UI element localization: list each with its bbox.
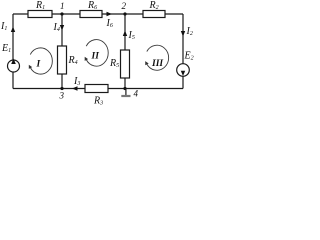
svg-text:4: 4: [134, 89, 139, 99]
svg-text:III: III: [151, 59, 163, 69]
svg-text:II: II: [91, 52, 100, 62]
svg-text:I: I: [36, 60, 41, 70]
svg-text:3: 3: [59, 91, 65, 101]
svg-text:1: 1: [60, 1, 65, 11]
svg-text:2: 2: [122, 1, 127, 11]
